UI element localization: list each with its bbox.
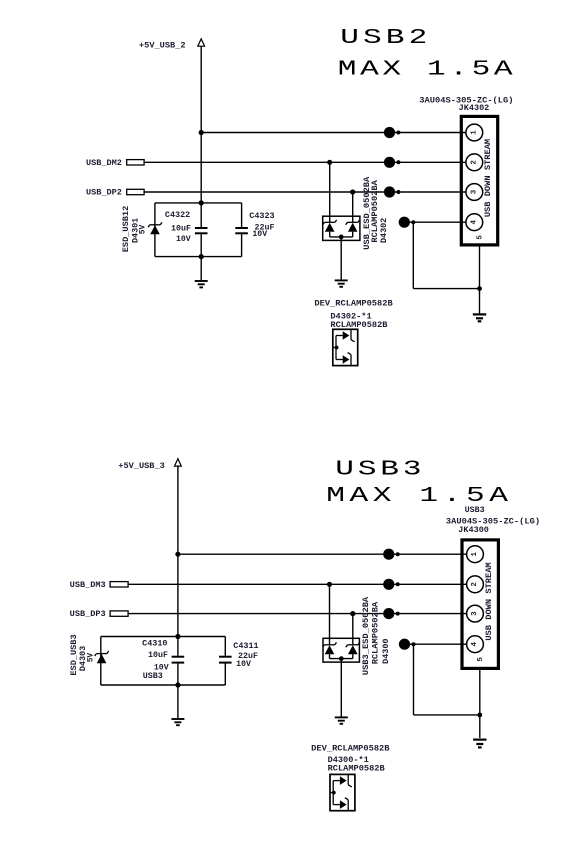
svg-text:USB_DM2: USB_DM2: [86, 159, 122, 168]
svg-text:10uF: 10uF: [171, 224, 191, 233]
svg-text:3AU04S-305-ZC-(LG): 3AU04S-305-ZC-(LG): [446, 517, 540, 526]
svg-text:10V: 10V: [236, 660, 251, 669]
svg-text:DEV_RCLAMP0582B: DEV_RCLAMP0582B: [311, 745, 390, 754]
svg-text:1: 1: [471, 551, 479, 556]
svg-text:5: 5: [477, 657, 485, 662]
svg-text:+5V_USB_3: +5V_USB_3: [118, 462, 165, 471]
svg-text:JK4300: JK4300: [458, 526, 489, 535]
svg-text:C4311: C4311: [233, 642, 258, 651]
svg-text:C4322: C4322: [165, 211, 190, 220]
svg-text:USB3_ESD_0502BA: USB3_ESD_0502BA: [362, 597, 371, 676]
svg-text:USB3: USB3: [335, 457, 425, 481]
svg-text:USB_DP2: USB_DP2: [86, 189, 122, 198]
svg-text:USB_DP3: USB_DP3: [70, 610, 106, 619]
svg-text:D4302: D4302: [380, 218, 389, 243]
svg-text:C4310: C4310: [142, 639, 167, 648]
svg-text:ESD_USB12: ESD_USB12: [122, 206, 131, 253]
svg-text:D4302-*1: D4302-*1: [330, 312, 371, 321]
svg-text:4: 4: [470, 219, 478, 224]
svg-text:10V: 10V: [252, 230, 267, 239]
svg-text:3: 3: [470, 189, 478, 194]
svg-text:3: 3: [471, 611, 479, 616]
svg-text:10V: 10V: [176, 235, 191, 244]
svg-text:C4323: C4323: [249, 212, 274, 221]
svg-text:2: 2: [470, 160, 478, 165]
svg-text:ESD_USB3: ESD_USB3: [70, 634, 79, 675]
svg-text:USB DOWN STREAM: USB DOWN STREAM: [485, 562, 494, 641]
svg-text:JK4302: JK4302: [459, 104, 490, 113]
svg-text:2: 2: [471, 582, 479, 587]
svg-text:USB_DM3: USB_DM3: [70, 581, 106, 590]
svg-text:USB DOWN STREAM: USB DOWN STREAM: [484, 139, 493, 218]
svg-text:RCLAMP0582B: RCLAMP0582B: [328, 764, 385, 773]
svg-text:5V: 5V: [139, 225, 148, 235]
svg-text:USB3: USB3: [143, 672, 163, 681]
svg-text:USB3: USB3: [465, 506, 485, 515]
svg-text:+5V_USB_2: +5V_USB_2: [139, 42, 186, 51]
svg-text:MAX 1.5A: MAX 1.5A: [326, 484, 512, 508]
svg-text:1: 1: [470, 130, 478, 135]
svg-text:RCLAMP0502BA: RCLAMP0502BA: [371, 180, 380, 243]
svg-text:5: 5: [477, 235, 485, 240]
svg-text:RCLAMP0502BA: RCLAMP0502BA: [372, 602, 381, 665]
svg-text:10uF: 10uF: [148, 651, 168, 660]
svg-text:DEV_RCLAMP0582B: DEV_RCLAMP0582B: [314, 299, 393, 308]
svg-text:D4300: D4300: [382, 638, 391, 663]
svg-text:5V: 5V: [87, 653, 96, 663]
svg-text:MAX 1.5A: MAX 1.5A: [338, 57, 516, 81]
svg-text:USB2: USB2: [340, 26, 431, 50]
svg-text:4: 4: [471, 641, 479, 646]
